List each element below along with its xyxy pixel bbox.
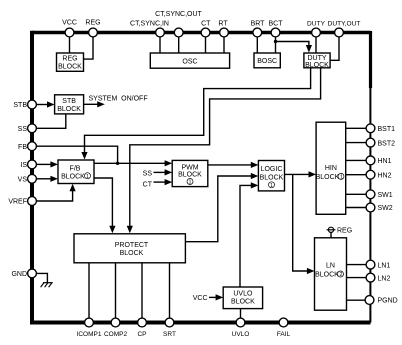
- pin UVLO: [232, 318, 250, 338]
- wire GND pin to ground: [37, 273, 48, 282]
- wire STB pin to STB block arrow: [37, 101, 55, 107]
- svg-text:SYSTEM ON/OFF: SYSTEM ON/OFF: [89, 95, 148, 102]
- wire PROTECT to COMP2 pin: [115, 263, 117, 318]
- svg-text:HN2: HN2: [378, 172, 392, 179]
- node FB junction on F/B output: [116, 162, 119, 165]
- svg-text:DUTY: DUTY: [307, 20, 326, 27]
- wire PROTECT to ICOMP1 pin: [88, 263, 90, 318]
- wire RT pin to OSC: [223, 37, 225, 53]
- svg-text:BLOCK: BLOCK: [260, 175, 284, 182]
- pin CT: [201, 20, 211, 37]
- wire SS pin to STB block bottom: [37, 114, 66, 128]
- wire VREF pin to F/B block bottom arrow: [37, 184, 76, 201]
- svg-text:CT: CT: [143, 182, 153, 189]
- pin BST2: [366, 138, 395, 147]
- pin FAIL: [277, 318, 291, 338]
- node CT internal stub to PWM: [143, 179, 173, 189]
- wire LOGIC output to HIN block arrow: [285, 171, 317, 177]
- wire HIN to BST1 pin: [346, 127, 367, 129]
- pin LN2: [366, 273, 390, 282]
- pin RT: [218, 20, 228, 37]
- pin BCT: [269, 20, 284, 37]
- pin STB: [13, 100, 36, 109]
- svg-text:BCT: BCT: [269, 20, 284, 27]
- svg-text:FB: FB: [18, 144, 27, 151]
- pin BST1: [366, 124, 395, 133]
- pin CT,SYNC,OUT: [155, 11, 202, 37]
- wire FB pin to F/B output node: [37, 146, 118, 163]
- PROTECT block: [74, 234, 185, 263]
- REG block U-REG: [57, 53, 84, 71]
- DUTY block: [304, 53, 330, 69]
- wire VCC pin to REG block: [69, 37, 71, 53]
- wire CT pin to OSC: [205, 37, 207, 53]
- svg-text:CP: CP: [137, 331, 146, 338]
- svg-text:VS: VS: [18, 177, 28, 184]
- svg-text:GND: GND: [11, 271, 27, 278]
- wire PROTECT to CP pin: [141, 263, 143, 318]
- ground chassis symbol: [41, 283, 53, 288]
- svg-text:PROTECT: PROTECT: [115, 242, 149, 249]
- wire PWM output to LOGIC block arrow: [208, 162, 259, 168]
- pin SW2: [366, 203, 393, 212]
- LN block: [315, 238, 347, 310]
- svg-text:OSC: OSC: [182, 58, 197, 65]
- pin GND: [11, 269, 36, 278]
- pin CP: [137, 318, 146, 338]
- svg-text:BLOCK: BLOCK: [316, 174, 340, 181]
- IC package outline border: [30, 31, 371, 324]
- wire LN to PGND pin: [347, 299, 366, 301]
- svg-text:RT: RT: [218, 20, 228, 27]
- svg-text:COMP2: COMP2: [104, 331, 128, 338]
- wire HIN to BST2 pin: [346, 142, 367, 144]
- svg-text:BST2: BST2: [378, 140, 396, 147]
- svg-text:BST1: BST1: [378, 126, 396, 133]
- svg-text:1: 1: [340, 175, 343, 181]
- wire CT,SYNC,IN pin to OSC: [159, 37, 161, 53]
- pin HN1: [366, 156, 392, 165]
- svg-text:BLOCK: BLOCK: [178, 172, 202, 179]
- svg-text:REG: REG: [337, 228, 352, 235]
- BOSC block: [254, 53, 280, 68]
- pin LN1: [366, 260, 390, 269]
- svg-text:1: 1: [270, 183, 273, 189]
- wire REG pin to REG block right side: [84, 37, 94, 59]
- svg-text:STB: STB: [13, 102, 27, 109]
- svg-text:2: 2: [340, 272, 343, 278]
- svg-text:CT: CT: [201, 20, 211, 27]
- OSC block: [150, 53, 229, 68]
- pin DUTY,OUT: [328, 20, 361, 37]
- svg-text:DUTY: DUTY: [307, 55, 326, 62]
- svg-text:ICOMP1: ICOMP1: [77, 331, 102, 338]
- wire UVLO block to UVLO pin: [240, 309, 242, 318]
- pin PGND: [365, 296, 398, 305]
- wire F/B output to PWM block arrow: [94, 160, 172, 166]
- pin FB: [18, 142, 36, 151]
- svg-text:CT,SYNC,OUT: CT,SYNC,OUT: [155, 11, 202, 18]
- svg-text:SRT: SRT: [163, 331, 176, 338]
- wire PROTECT output to LOGIC block arrow: [185, 173, 258, 242]
- wire DUTY,OUT pin to DUTY block right side: [330, 37, 339, 60]
- svg-text:LOGIC: LOGIC: [261, 166, 283, 173]
- svg-text:BLOCK: BLOCK: [57, 106, 81, 113]
- svg-text:1: 1: [86, 174, 89, 180]
- svg-text:PGND: PGND: [378, 298, 398, 305]
- wire CT,SYNC,OUT pin to OSC: [178, 37, 180, 53]
- svg-text:CT,SYNC,IN: CT,SYNC,IN: [130, 20, 169, 27]
- svg-text:IS: IS: [20, 162, 27, 169]
- wire HIN to SW1 pin: [346, 193, 367, 195]
- svg-text:SS: SS: [18, 126, 28, 133]
- pin SRT: [163, 318, 176, 338]
- wire BCT branch to DUTY block top arrow: [276, 42, 313, 53]
- svg-text:BOSC: BOSC: [257, 58, 277, 65]
- svg-text:BRT: BRT: [251, 20, 266, 27]
- svg-text:SS: SS: [143, 170, 153, 177]
- node BCT branch junction: [274, 40, 277, 43]
- svg-text:DUTY,OUT: DUTY,OUT: [328, 20, 361, 27]
- wire DUTY block output to PROTECT block top: [127, 68, 321, 234]
- svg-text:VREF: VREF: [8, 199, 27, 206]
- wire HIN to HN1 pin: [346, 159, 367, 161]
- svg-text:UVLO: UVLO: [233, 290, 253, 297]
- pin REG: [85, 19, 100, 37]
- wire LOGIC output to LN block arrow: [293, 174, 315, 274]
- pin SS: [18, 124, 37, 133]
- wire PROTECT to SRT pin: [169, 263, 171, 318]
- wire LN to LN1 pin: [347, 264, 367, 266]
- svg-text:LN: LN: [326, 263, 335, 270]
- STB block: [55, 95, 84, 114]
- wire DUTY block output to F/B block top: [81, 68, 310, 160]
- wire HIN to SW2 pin: [346, 207, 367, 209]
- pin VREF: [8, 197, 36, 206]
- svg-text:REG: REG: [62, 56, 77, 63]
- wire DUTY pin to DUTY block: [315, 37, 317, 53]
- pin HN2: [366, 170, 392, 179]
- wire BRT pin to BOSC: [256, 37, 258, 53]
- svg-text:BLOCK: BLOCK: [61, 173, 85, 180]
- svg-text:VCC: VCC: [193, 295, 208, 302]
- pin VCC: [62, 19, 77, 37]
- pin SW1: [366, 190, 393, 199]
- wire HIN to HN2 pin: [346, 174, 367, 176]
- svg-text:UVLO: UVLO: [232, 331, 250, 338]
- node VCC stub to UVLO block: [193, 294, 223, 302]
- pin CT,SYNC,IN: [130, 20, 169, 37]
- svg-text:HN1: HN1: [378, 158, 392, 165]
- node SS internal stub to PWM: [143, 169, 173, 177]
- REG supply terminal on LN block: [327, 227, 353, 238]
- svg-text:SW2: SW2: [378, 205, 393, 212]
- svg-text:LN2: LN2: [378, 275, 391, 282]
- svg-text:BLOCK: BLOCK: [58, 64, 82, 71]
- wire VS pin to F/B block arrow: [37, 176, 59, 182]
- pin BRT: [251, 20, 266, 37]
- svg-text:FAIL: FAIL: [277, 331, 291, 338]
- LOGIC block: [258, 161, 284, 191]
- svg-text:REG: REG: [85, 19, 100, 26]
- F/B block U1: [58, 160, 94, 184]
- pin VS: [18, 174, 37, 183]
- HIN block: [316, 122, 346, 214]
- svg-text:LN1: LN1: [378, 262, 391, 269]
- svg-text:BLOCK: BLOCK: [315, 271, 339, 278]
- wire UVLO block to LOGIC block arrow: [240, 182, 258, 287]
- svg-text:1: 1: [189, 180, 192, 186]
- svg-text:VCC: VCC: [62, 19, 77, 26]
- svg-text:STB: STB: [62, 98, 76, 105]
- svg-text:PWM: PWM: [181, 164, 198, 171]
- UVLO block: [223, 287, 262, 309]
- svg-text:SW1: SW1: [378, 192, 393, 199]
- pin ICOMP1: [77, 318, 102, 338]
- wire F/B output 2 to PROTECT block top arrow: [94, 178, 116, 233]
- wire STB block output SYSTEM ON/OFF: [84, 95, 148, 107]
- wire LN to LN2 pin: [347, 277, 367, 279]
- wire BCT pin to BOSC: [275, 37, 277, 53]
- pin DUTY: [307, 20, 326, 37]
- svg-text:BLOCK: BLOCK: [120, 250, 144, 257]
- svg-text:HIN: HIN: [325, 165, 337, 172]
- svg-text:BLOCK: BLOCK: [305, 62, 329, 69]
- pin COMP2: [104, 318, 128, 338]
- PWM block: [172, 160, 208, 186]
- wire IS pin to F/B block arrow: [37, 161, 59, 167]
- svg-text:F/B: F/B: [70, 166, 81, 173]
- pin IS: [20, 160, 36, 169]
- svg-text:BLOCK: BLOCK: [231, 299, 255, 306]
